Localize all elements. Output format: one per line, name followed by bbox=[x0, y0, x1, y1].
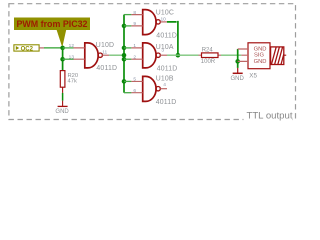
connector X5 body hatch bbox=[271, 47, 287, 65]
wire U10C out to corner bbox=[167, 21, 178, 55]
svg-text:OC2: OC2 bbox=[21, 46, 34, 52]
svg-text:U10A: U10A bbox=[156, 44, 174, 51]
svg-text:4011D: 4011D bbox=[96, 65, 117, 72]
wire rail to pin 2 bbox=[124, 58, 131, 60]
wire R20 to GND1 bbox=[62, 93, 64, 101]
svg-text:5: 5 bbox=[133, 76, 136, 82]
wire rail to pin 5 bbox=[124, 80, 131, 82]
wire U10D output to rail B bbox=[109, 54, 124, 56]
ground symbol GND1 (R20) bbox=[58, 101, 68, 107]
svg-text:10: 10 bbox=[161, 17, 167, 23]
svg-text:100R: 100R bbox=[201, 59, 216, 65]
wire rail to pin 6 bbox=[124, 92, 131, 94]
wire rail to pin 8 bbox=[124, 14, 131, 16]
svg-text:4011D: 4011D bbox=[156, 32, 177, 39]
nand gate U10B bbox=[131, 76, 167, 101]
junction rail U10D out bbox=[122, 53, 127, 58]
junction rail pin2 bbox=[122, 57, 127, 62]
svg-text:4: 4 bbox=[163, 82, 166, 88]
svg-text:GND: GND bbox=[254, 46, 267, 52]
svg-text:R24: R24 bbox=[202, 48, 214, 54]
svg-text:12: 12 bbox=[69, 43, 75, 49]
rail B vertical wire bbox=[123, 15, 125, 93]
svg-text:GND: GND bbox=[55, 109, 69, 115]
wire GND rail vertical at connector bbox=[237, 49, 239, 68]
wire OC2 to node A bbox=[44, 47, 63, 49]
svg-text:GND: GND bbox=[254, 59, 267, 65]
wire U10A out to R24 bbox=[167, 54, 199, 56]
junction rail pin1 bbox=[122, 46, 127, 51]
svg-text:PWM from PIC32: PWM from PIC32 bbox=[17, 19, 88, 29]
connector X5 bbox=[238, 43, 270, 69]
svg-text:4011D: 4011D bbox=[156, 99, 177, 106]
wire to pin 13 bbox=[63, 58, 74, 60]
junction rail pin5 bbox=[122, 79, 127, 84]
junction rail pin9 bbox=[122, 24, 127, 29]
ground symbol GND2 (connector) bbox=[233, 68, 243, 73]
nand gate U10A bbox=[131, 43, 167, 68]
nand gate U10C bbox=[131, 10, 167, 35]
junction pin13 tap bbox=[60, 57, 65, 62]
sheet label TTL output bbox=[244, 110, 293, 122]
svg-text:4011D: 4011D bbox=[157, 66, 178, 73]
net flag OC2 bbox=[14, 45, 44, 53]
junction GND rail bottom pin bbox=[235, 59, 240, 64]
svg-text:U10D: U10D bbox=[96, 42, 114, 49]
svg-text:U10B: U10B bbox=[156, 76, 174, 83]
svg-text:8: 8 bbox=[133, 10, 136, 16]
wire to pin 12 bbox=[63, 47, 74, 49]
svg-text:X5: X5 bbox=[249, 73, 257, 80]
wire rail to pin 1 bbox=[124, 47, 131, 49]
wire left rail down bbox=[62, 48, 64, 71]
label PWM from PIC32 bbox=[14, 18, 90, 48]
svg-text:GND: GND bbox=[231, 76, 245, 82]
svg-text:6: 6 bbox=[133, 88, 136, 94]
nand gate U10D bbox=[74, 43, 110, 68]
svg-text:13: 13 bbox=[69, 54, 75, 60]
svg-text:U10C: U10C bbox=[156, 10, 174, 17]
svg-text:TTL output: TTL output bbox=[246, 111, 292, 122]
wire rail to pin 9 bbox=[124, 25, 131, 27]
svg-text:11: 11 bbox=[102, 50, 107, 56]
svg-text:1: 1 bbox=[133, 43, 136, 49]
junction U10C/U10A outputs bbox=[176, 53, 181, 58]
resistor R24 bbox=[199, 53, 222, 58]
svg-text:SIG: SIG bbox=[254, 53, 264, 59]
wire R24 to connector SIG bbox=[221, 54, 241, 56]
svg-text:9: 9 bbox=[133, 21, 136, 27]
resistor R20 bbox=[60, 71, 65, 93]
node A junction bbox=[60, 46, 65, 51]
svg-text:2: 2 bbox=[133, 54, 136, 60]
svg-text:47k: 47k bbox=[68, 79, 77, 85]
